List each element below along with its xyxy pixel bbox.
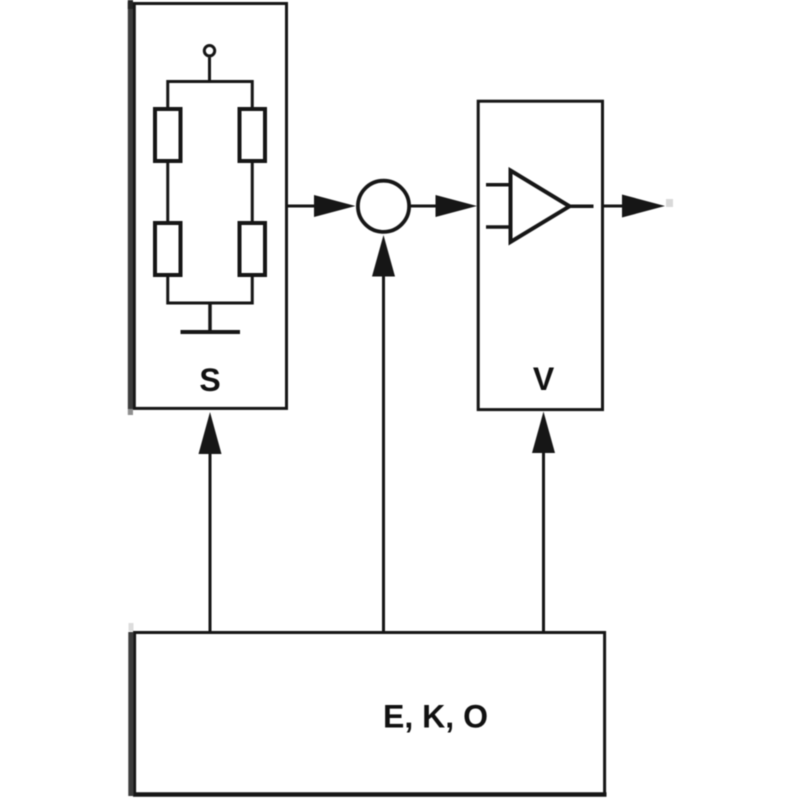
svg-text:S: S [199, 362, 220, 398]
svg-text:V: V [533, 361, 555, 397]
svg-text:E, K, O: E, K, O [383, 699, 488, 735]
